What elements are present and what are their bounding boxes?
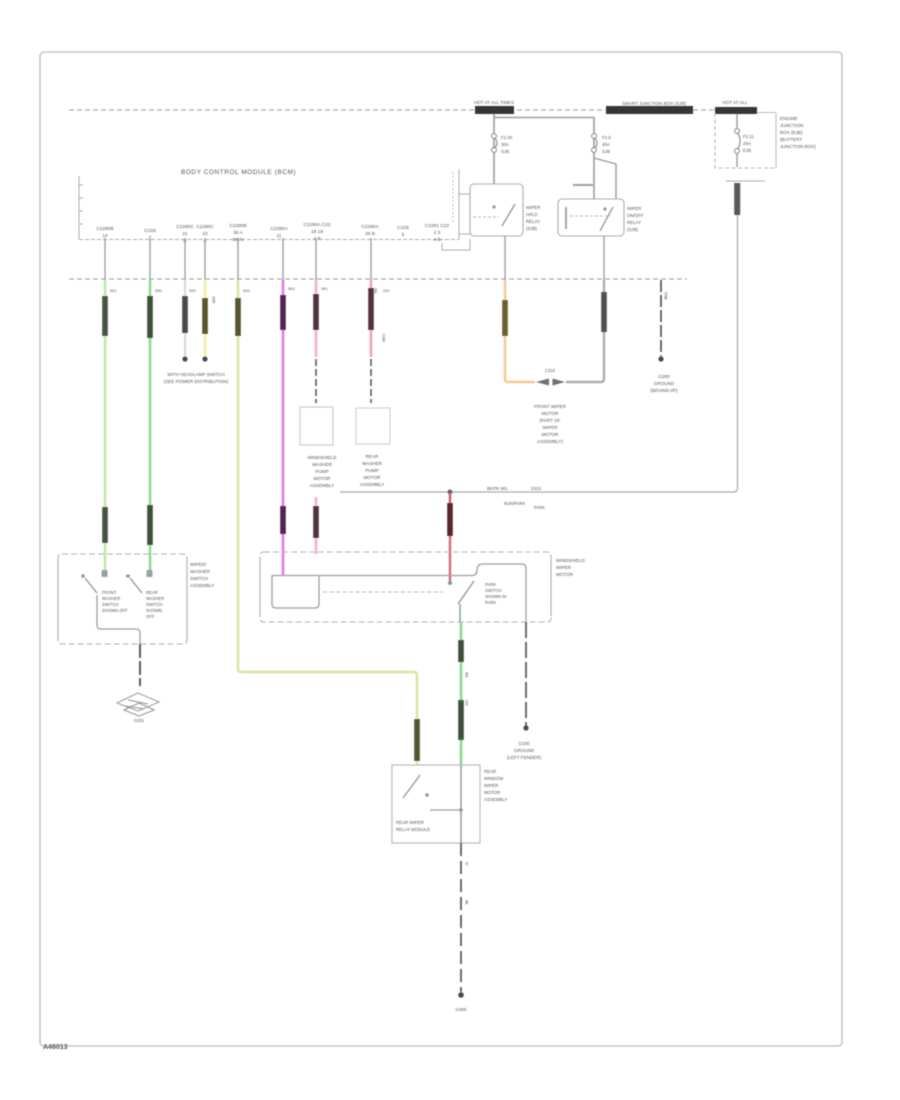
svg-text:REAR WIPER: REAR WIPER bbox=[396, 820, 424, 825]
svg-text:WITH HEADLAMP SWITCH: WITH HEADLAMP SWITCH bbox=[167, 372, 225, 377]
svg-text:GN: GN bbox=[383, 288, 389, 293]
switch common path bbox=[97, 595, 140, 644]
wire D gray lead bbox=[204, 238, 206, 280]
right feed code block bbox=[734, 183, 740, 215]
relay2 label bbox=[627, 206, 644, 232]
svg-text:C2280C: C2280C bbox=[176, 224, 194, 230]
BCM right edge bbox=[459, 169, 470, 239]
left ground chevrons bbox=[117, 693, 159, 711]
svg-text:SMART JUNCTION BOX (SJB): SMART JUNCTION BOX (SJB) bbox=[622, 101, 687, 106]
orange wire bbox=[505, 280, 535, 382]
svg-text:A B: A B bbox=[313, 236, 320, 242]
switch1 arm bbox=[85, 578, 97, 593]
park switch text bbox=[485, 582, 506, 605]
orange code block bbox=[502, 300, 508, 336]
svg-text:MOTOR: MOTOR bbox=[556, 572, 574, 577]
svg-text:(SJB): (SJB) bbox=[627, 227, 639, 232]
connector box C2 (wire H) bbox=[356, 408, 390, 444]
wire F magenta bbox=[282, 280, 285, 576]
wire C end dot bbox=[182, 356, 187, 361]
svg-text:HOT AT ALL TIMES: HOT AT ALL TIMES bbox=[474, 100, 514, 105]
relay feed wire bbox=[493, 114, 495, 184]
svg-text:GROUND: GROUND bbox=[514, 748, 535, 753]
svg-text:WASHER: WASHER bbox=[312, 462, 333, 467]
wire G dark lower lead bbox=[315, 359, 317, 403]
park switch arm bbox=[458, 581, 474, 604]
gray wire lead bbox=[603, 236, 605, 280]
park line labels bbox=[487, 486, 545, 510]
motor winding loop bbox=[272, 575, 319, 608]
svg-text:A46013: A46013 bbox=[43, 1044, 68, 1051]
wire H dark lower lead bbox=[370, 359, 372, 403]
svg-text:G100: G100 bbox=[518, 741, 530, 746]
svg-text:C2280A: C2280A bbox=[270, 226, 288, 232]
relay2 switch arm bbox=[600, 207, 613, 231]
svg-text:WINDSHIELD: WINDSHIELD bbox=[556, 558, 586, 563]
svg-text:RUN/PARK: RUN/PARK bbox=[504, 501, 526, 506]
wire D code block bbox=[202, 298, 208, 334]
svg-text:57: 57 bbox=[465, 862, 470, 867]
svg-text:PARK: PARK bbox=[485, 600, 496, 605]
wire A gray lead bbox=[104, 238, 106, 280]
svg-text:SJB: SJB bbox=[602, 149, 610, 154]
park dashed link bbox=[323, 591, 443, 593]
svg-text:PUMP: PUMP bbox=[365, 468, 378, 473]
svg-text:SJB: SJB bbox=[501, 149, 509, 154]
wire A light green bbox=[104, 280, 107, 575]
svg-text:C228: C228 bbox=[397, 225, 409, 231]
rear switch arm bbox=[403, 775, 420, 798]
svg-text:26 B: 26 B bbox=[365, 231, 375, 237]
wire C code block bbox=[182, 296, 188, 333]
junction dot rear bbox=[459, 808, 463, 812]
svg-text:981: 981 bbox=[321, 286, 328, 291]
svg-text:589: 589 bbox=[155, 288, 162, 293]
svg-text:663: 663 bbox=[288, 286, 295, 291]
wire G code block 3 bbox=[313, 506, 319, 538]
relay2 K2 box bbox=[558, 199, 624, 236]
wire E gray lead bbox=[237, 238, 239, 280]
svg-text:(SEE POWER DISTRIBUTION): (SEE POWER DISTRIBUTION) bbox=[164, 379, 229, 384]
orange wire lead bbox=[504, 236, 506, 280]
bottom wire codes bbox=[465, 862, 470, 905]
right fuse box bar feed bbox=[715, 113, 776, 168]
engine box label bbox=[780, 116, 816, 149]
svg-text:57BK: 57BK bbox=[664, 292, 669, 301]
svg-text:ASSEMBLY: ASSEMBLY bbox=[190, 583, 214, 588]
svg-text:RELAY: RELAY bbox=[627, 220, 641, 225]
motor inner line bbox=[272, 564, 526, 622]
svg-text:C2280C: C2280C bbox=[196, 224, 214, 230]
wire B code block 2 bbox=[147, 505, 153, 545]
svg-text:WASHER: WASHER bbox=[146, 596, 164, 601]
motor ground dot bbox=[523, 725, 528, 730]
fuse F3 label bbox=[743, 134, 754, 153]
svg-text:SWITCH: SWITCH bbox=[190, 576, 208, 581]
svg-text:18 19: 18 19 bbox=[311, 229, 323, 235]
svg-text:F2.11: F2.11 bbox=[743, 134, 754, 139]
rear wire inside bbox=[460, 765, 462, 843]
fuse F3 bbox=[735, 129, 740, 154]
wire C gray lead bbox=[184, 238, 186, 280]
wire I dark red upper bbox=[449, 492, 451, 503]
svg-text:WINDOW: WINDOW bbox=[484, 776, 504, 781]
bottom ground wire bbox=[460, 843, 462, 992]
switch1 terminal dot bbox=[81, 574, 85, 578]
svg-text:G200: G200 bbox=[658, 374, 670, 379]
switch2 arm bbox=[130, 578, 142, 593]
wire B gray lead bbox=[149, 238, 151, 280]
svg-text:5: 5 bbox=[402, 232, 405, 238]
wire A code block bbox=[102, 296, 108, 336]
splice label bbox=[534, 404, 567, 444]
svg-text:PUMP: PUMP bbox=[315, 469, 328, 474]
svg-text:MOTOR: MOTOR bbox=[541, 411, 559, 416]
svg-text:SWITCH: SWITCH bbox=[146, 602, 163, 607]
svg-text:MOTOR: MOTOR bbox=[313, 476, 331, 481]
fuse F3 tail bbox=[736, 153, 738, 167]
relay2 coil bar bbox=[565, 207, 567, 229]
svg-text:MOTOR: MOTOR bbox=[484, 790, 500, 795]
BCM left edge bbox=[79, 176, 83, 239]
relay1 contact dot bbox=[492, 205, 495, 208]
wire code texts beside wires bbox=[110, 286, 669, 343]
svg-text:(BEHIND I/P): (BEHIND I/P) bbox=[650, 388, 678, 393]
svg-text:GN: GN bbox=[465, 700, 470, 706]
svg-text:ASSEMBLY): ASSEMBLY) bbox=[537, 439, 563, 444]
svg-text:BOX (EJB): BOX (EJB) bbox=[780, 130, 803, 135]
wire G pink lower bbox=[315, 497, 318, 554]
rear switch dot bbox=[425, 793, 429, 797]
svg-text:21: 21 bbox=[182, 231, 188, 237]
wire B code block bbox=[147, 296, 153, 338]
svg-text:WIPER: WIPER bbox=[542, 425, 558, 430]
mid dashed rail bbox=[69, 278, 687, 280]
wire D yellow bbox=[204, 280, 207, 356]
svg-text:OFF: OFF bbox=[146, 614, 155, 619]
gray wire bbox=[566, 280, 604, 382]
svg-text:WINDSHIELD: WINDSHIELD bbox=[308, 455, 338, 460]
big box side edges bbox=[260, 558, 551, 616]
svg-text:C2280B: C2280B bbox=[96, 226, 113, 232]
wire G pink upper bbox=[315, 280, 318, 357]
svg-text:HI/LO: HI/LO bbox=[526, 212, 538, 217]
svg-text:993: 993 bbox=[243, 288, 250, 293]
relay1 coil dash bbox=[473, 216, 499, 218]
svg-text:C2280A C22: C2280A C22 bbox=[303, 222, 331, 228]
left ground wire bbox=[139, 644, 141, 686]
wire A code block 2 bbox=[102, 507, 108, 543]
motor ground label bbox=[507, 741, 542, 760]
svg-text:C310: C310 bbox=[545, 368, 556, 373]
svg-text:(PART OF: (PART OF bbox=[540, 418, 561, 423]
power bar 2 bbox=[606, 106, 693, 114]
svg-text:WIPER/: WIPER/ bbox=[190, 562, 207, 567]
svg-text:(LEFT FENDER): (LEFT FENDER) bbox=[507, 755, 542, 760]
relay2 riser bbox=[594, 158, 616, 199]
svg-text:C2281 C22: C2281 C22 bbox=[425, 223, 450, 229]
relay1 switch arm bbox=[502, 204, 515, 226]
left box label bbox=[190, 562, 214, 588]
svg-text:ASSEMBLY: ASSEMBLY bbox=[310, 483, 334, 488]
BCM pin connector texts bbox=[96, 222, 449, 244]
rear wiper box bbox=[392, 765, 480, 843]
svg-text:SHOWN IN: SHOWN IN bbox=[485, 594, 506, 599]
svg-text:BK/PK 961: BK/PK 961 bbox=[487, 486, 508, 491]
svg-text:REAR: REAR bbox=[146, 590, 158, 595]
svg-text:JUNCTION BOX): JUNCTION BOX) bbox=[780, 144, 816, 149]
svg-text:SHOWN OFF: SHOWN OFF bbox=[102, 608, 128, 613]
BCM bus line bbox=[79, 239, 459, 241]
svg-text:WIPER: WIPER bbox=[484, 783, 498, 788]
svg-text:REAR: REAR bbox=[366, 454, 379, 459]
wire A terminal bbox=[102, 570, 108, 577]
pin stub bracket under pin 10 bbox=[442, 239, 470, 250]
svg-text:30A: 30A bbox=[501, 142, 509, 147]
switch2 text bbox=[146, 590, 164, 619]
connector T bracket bbox=[726, 180, 765, 182]
svg-text:(BATTERY: (BATTERY bbox=[780, 137, 802, 142]
svg-text:WASHER: WASHER bbox=[102, 596, 120, 601]
svg-text:(SJB): (SJB) bbox=[526, 226, 538, 231]
wire I code block bbox=[447, 503, 453, 536]
svg-text:GROUND: GROUND bbox=[654, 381, 675, 386]
fuse F2 bbox=[592, 134, 597, 153]
wire D end dot bbox=[202, 356, 207, 361]
fuse F3 lead bbox=[736, 114, 738, 128]
bottom ground dot bbox=[458, 992, 464, 998]
motor ground wire bbox=[525, 622, 527, 726]
junction dot S315 bbox=[448, 490, 453, 495]
svg-text:11: 11 bbox=[277, 233, 282, 239]
svg-text:BODY CONTROL MODULE (BCM): BODY CONTROL MODULE (BCM) bbox=[181, 169, 296, 176]
wire B green bbox=[149, 280, 152, 575]
svg-text:C2280A: C2280A bbox=[361, 224, 379, 230]
wire E code block 2 bbox=[414, 719, 420, 761]
run wire code block bbox=[458, 640, 464, 662]
svg-text:MOTOR: MOTOR bbox=[541, 432, 559, 437]
rear box label bbox=[484, 769, 507, 802]
wire H gray lead bbox=[370, 238, 372, 280]
wire C white wire bbox=[184, 280, 186, 356]
svg-text:WIPER: WIPER bbox=[526, 205, 540, 210]
svg-text:561: 561 bbox=[465, 672, 470, 678]
wire H code block bbox=[368, 288, 374, 330]
svg-text:F2.30: F2.30 bbox=[501, 135, 513, 140]
ground wire G200 bbox=[660, 280, 662, 356]
headlamp note bbox=[164, 372, 229, 384]
relay2 feed vertical bbox=[593, 117, 595, 199]
svg-text:C240: C240 bbox=[382, 334, 387, 343]
svg-text:SWITCH: SWITCH bbox=[485, 588, 502, 593]
relay1 label bbox=[526, 205, 540, 231]
svg-text:ASSEMBLY: ASSEMBLY bbox=[360, 482, 384, 487]
big box label bbox=[556, 558, 586, 577]
ground label G200 bbox=[650, 374, 678, 393]
wire E code block bbox=[235, 298, 241, 336]
svg-text:30 A: 30 A bbox=[233, 230, 243, 236]
wire B terminal bbox=[147, 570, 153, 577]
svg-text:2 3: 2 3 bbox=[434, 230, 441, 236]
park switch dot bbox=[448, 581, 452, 585]
BCM connector dashed bracket bbox=[452, 172, 454, 222]
svg-text:REAR: REAR bbox=[484, 769, 496, 774]
svg-text:PARK: PARK bbox=[485, 582, 496, 587]
wire E khaki vertical bbox=[238, 280, 417, 764]
wire G gray lead bbox=[315, 238, 317, 280]
svg-text:A B: A B bbox=[433, 237, 440, 243]
svg-text:C228: C228 bbox=[144, 228, 156, 234]
right feed wire bbox=[340, 215, 738, 492]
svg-text:MOTOR: MOTOR bbox=[363, 475, 381, 480]
wire F code block 2 bbox=[280, 506, 286, 534]
relay2 coil dash bbox=[570, 215, 611, 217]
svg-text:SWITCH: SWITCH bbox=[102, 602, 119, 607]
power bar 1 bbox=[475, 106, 514, 114]
ground dot G200 bbox=[658, 356, 663, 361]
power bar 3 bbox=[715, 107, 757, 114]
svg-text:BK: BK bbox=[465, 900, 470, 905]
svg-text:WIPER: WIPER bbox=[627, 206, 641, 211]
svg-text:F2.9: F2.9 bbox=[602, 135, 611, 140]
svg-text:20A: 20A bbox=[743, 141, 751, 146]
svg-text:EJB: EJB bbox=[743, 148, 751, 153]
svg-text:FRONT: FRONT bbox=[102, 590, 117, 595]
svg-text:WIPER: WIPER bbox=[556, 565, 572, 570]
svg-text:SHOWN: SHOWN bbox=[146, 608, 162, 613]
svg-text:FRONT WIPER: FRONT WIPER bbox=[534, 404, 567, 409]
svg-text:G400: G400 bbox=[455, 1007, 467, 1012]
fuse F1 label bbox=[501, 135, 513, 154]
switch1 text bbox=[102, 590, 128, 613]
rear switch link bbox=[430, 809, 461, 811]
svg-text:1050: 1050 bbox=[212, 296, 217, 304]
wire I red bbox=[449, 536, 451, 581]
wire H salmon bbox=[370, 280, 373, 357]
park switch lower lead bbox=[459, 604, 461, 622]
power rail dashed line bbox=[69, 109, 757, 111]
fuse F2 label bbox=[602, 135, 611, 154]
svg-text:40A: 40A bbox=[602, 142, 610, 147]
wire F gray lead bbox=[282, 238, 284, 280]
svg-text:G201: G201 bbox=[134, 718, 145, 723]
svg-text:590: 590 bbox=[189, 288, 196, 293]
rear washer pump label bbox=[360, 454, 384, 487]
connector box C1 (wire G) bbox=[300, 407, 333, 445]
washer pump label bbox=[308, 455, 338, 488]
switch2 terminal dot bbox=[126, 574, 130, 578]
fuse F1 bbox=[492, 134, 497, 153]
rear box inner text bbox=[396, 820, 430, 832]
svg-text:ASSEMBLY: ASSEMBLY bbox=[484, 797, 507, 802]
left switch box bbox=[58, 554, 187, 644]
svg-text:WASHER: WASHER bbox=[190, 569, 211, 574]
relay2 coil stub bbox=[573, 184, 593, 186]
svg-text:WASHER: WASHER bbox=[362, 461, 383, 466]
svg-text:ENGINE: ENGINE bbox=[780, 116, 798, 121]
svg-text:S315: S315 bbox=[531, 486, 541, 491]
run wire code block 2 bbox=[458, 700, 464, 740]
splice arrows C310 bbox=[536, 379, 549, 386]
gray code block bbox=[601, 292, 607, 332]
svg-text:PARK: PARK bbox=[534, 505, 545, 510]
run wire green upper bbox=[460, 622, 463, 765]
svg-text:ON/OFF: ON/OFF bbox=[627, 213, 644, 218]
svg-text:HOT AT ALL: HOT AT ALL bbox=[722, 100, 748, 105]
left box side edges bbox=[58, 560, 187, 638]
svg-text:JUNCTION: JUNCTION bbox=[780, 123, 803, 128]
relay1 K1 box bbox=[470, 184, 523, 236]
wire F code block bbox=[280, 295, 286, 330]
big box wiper motor bbox=[260, 552, 551, 622]
relay2 contact dot bbox=[603, 207, 606, 210]
svg-text:RELAY: RELAY bbox=[526, 219, 540, 224]
svg-text:561: 561 bbox=[110, 288, 117, 293]
wire G code block bbox=[313, 294, 319, 330]
relay branch wire bbox=[494, 117, 594, 119]
svg-text:22: 22 bbox=[202, 231, 208, 237]
svg-text:RELAY MODULE: RELAY MODULE bbox=[396, 827, 430, 832]
svg-text:941: 941 bbox=[374, 288, 379, 294]
svg-text:C2280B: C2280B bbox=[229, 223, 246, 229]
run wire codes bbox=[465, 672, 470, 706]
